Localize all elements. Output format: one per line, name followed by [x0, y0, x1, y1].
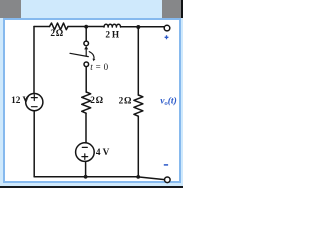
svg-text:t = 0: t = 0 [90, 62, 108, 72]
label minus terminal (blue) [164, 164, 168, 166]
svg-text:2 Ω: 2 Ω [119, 96, 132, 106]
label 2 ohm for R2 [90, 96, 103, 106]
label t=0 for switch [90, 62, 108, 72]
wire top middle segment [68, 26, 104, 28]
label plus terminal (blue) [165, 35, 169, 39]
node junction bottom right [136, 175, 140, 179]
resistor R1 2ohm (top) [50, 23, 69, 30]
svg-text:2 Ω: 2 Ω [90, 96, 103, 106]
node junction bottom middle [84, 175, 88, 179]
wire top right segment [121, 26, 165, 28]
node junction top right [136, 25, 140, 29]
node junction top middle [84, 25, 88, 29]
svg-text:4 V: 4 V [96, 148, 110, 158]
wire right branch lower [137, 116, 139, 177]
wire bottom segment [34, 176, 138, 178]
svg-text:12 V: 12 V [11, 96, 29, 106]
resistor R2 2ohm (middle) [82, 92, 91, 113]
wire left branch lower [33, 111, 35, 177]
label 4 V for V2 [96, 148, 110, 158]
wire middle to source [85, 113, 87, 143]
voltage source V1 12V [26, 94, 43, 111]
svg-text:2 H: 2 H [105, 31, 120, 41]
wire right branch upper [137, 27, 139, 95]
label vo(t) output voltage (blue) [160, 96, 176, 108]
switch S1 t=0 [70, 41, 95, 67]
wire bottom right sloped segment [138, 177, 165, 180]
label 12 V for V1 [11, 96, 29, 106]
label 2 ohm for R1 [50, 29, 63, 39]
inductor L1 2H [104, 24, 121, 27]
wire source to bottom node [85, 161, 87, 176]
voltage source V2 4V [76, 143, 95, 162]
svg-text:vo(t): vo(t) [160, 96, 176, 108]
terminal bottom right [165, 177, 171, 183]
label 2 ohm for R3 [119, 96, 132, 106]
wire middle branch [85, 67, 87, 92]
label 2 H for L1 [105, 31, 120, 41]
wire switch stub from top node [85, 27, 87, 41]
terminal top right [164, 25, 170, 31]
wire top-left segment [34, 26, 50, 28]
wire left branch upper [33, 27, 35, 94]
resistor R3 2ohm (right) [134, 95, 143, 116]
svg-text:2 Ω: 2 Ω [50, 29, 63, 39]
